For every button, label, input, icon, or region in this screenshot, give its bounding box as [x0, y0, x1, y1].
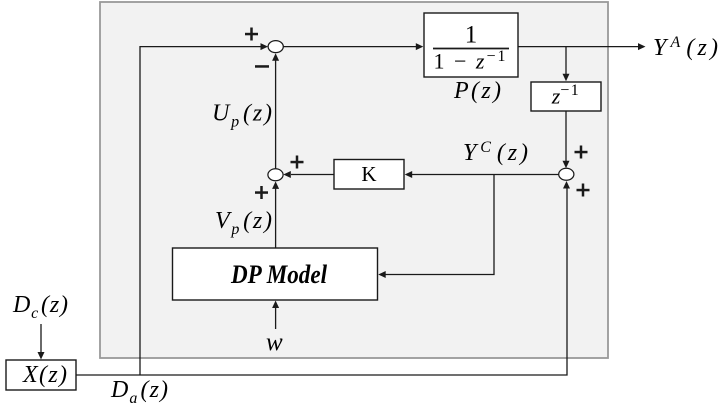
svg-text:K: K	[361, 162, 376, 186]
wire: S1 output to P(z) block	[283, 46, 416, 48]
block X(z)	[6, 360, 76, 390]
arrowhead into S3 top	[563, 161, 570, 169]
arrowhead into S1 left	[261, 43, 269, 50]
wire: feedback from D_a line up left side and across to summer S1	[140, 47, 261, 375]
arrowhead into K right edge	[405, 171, 413, 178]
arrowhead into DP Model right edge	[378, 271, 386, 278]
svg-text:X(z): X(z)	[22, 362, 67, 388]
wire: w input up into DP Model bottom	[275, 307, 277, 329]
block DP Model	[173, 248, 378, 300]
summer S3 (right)	[559, 168, 574, 180]
arrowhead into S3 bottom	[563, 181, 570, 189]
sign − at S1	[255, 65, 269, 68]
wire: K output to summer S2	[291, 174, 334, 176]
summer S1 (top)	[268, 41, 283, 53]
svg-text:w: w	[266, 329, 283, 356]
sign + at S3 bottom	[577, 189, 590, 192]
arrowhead into P(z) left edge	[416, 43, 424, 50]
block K	[334, 160, 404, 190]
sign + at S2 top right	[291, 161, 304, 164]
arrowhead into S1 bottom	[272, 53, 279, 61]
svg-text:Da(z): Da(z)	[110, 377, 168, 407]
block P(z): 1/(1-z^-1)	[424, 13, 518, 77]
sign + at S2 bottom left	[255, 191, 268, 194]
svg-text:1: 1	[465, 22, 478, 49]
wire: P(z) output to Y^A(z)	[518, 46, 639, 48]
arrowhead into S2 right	[283, 171, 291, 178]
arrowhead into DP Model bottom	[272, 301, 279, 309]
svg-text:Dc(z): Dc(z)	[12, 292, 68, 322]
svg-text:Vp(z): Vp(z)	[215, 208, 272, 238]
arrowhead at Y^A output	[638, 43, 646, 50]
sign + at S3 top	[575, 151, 588, 154]
svg-text:YA(z): YA(z)	[653, 34, 718, 61]
wire: D_c(z) down into X(z) block	[40, 324, 42, 353]
sign + at S1	[245, 33, 258, 36]
wire: branch down to z^-1 block	[565, 47, 567, 75]
svg-text:DP Model: DP Model	[230, 260, 328, 289]
arrowhead into S2 bottom	[272, 181, 279, 189]
wire: U_p(z) from S2 top up to S1 bottom	[275, 60, 277, 169]
wire: D_a(z) line from X(z) across bottom and up to S3	[76, 188, 567, 375]
wire: z^-1 output down to summer S3	[565, 111, 567, 161]
wire: V_p(z) from DP Model top up to S2 bottom	[275, 188, 277, 248]
summer S2 (middle)	[268, 169, 283, 181]
arrowhead into z^-1 top	[563, 74, 570, 82]
svg-text:P(z): P(z)	[453, 78, 501, 104]
plant boundary (gray region)	[100, 2, 608, 358]
block z^-1	[531, 82, 601, 111]
wire: S3 output left toward K block	[412, 174, 559, 176]
wire: Y^C branch down then left into DP Model	[385, 175, 494, 275]
arrowhead into X(z) top	[38, 352, 45, 360]
